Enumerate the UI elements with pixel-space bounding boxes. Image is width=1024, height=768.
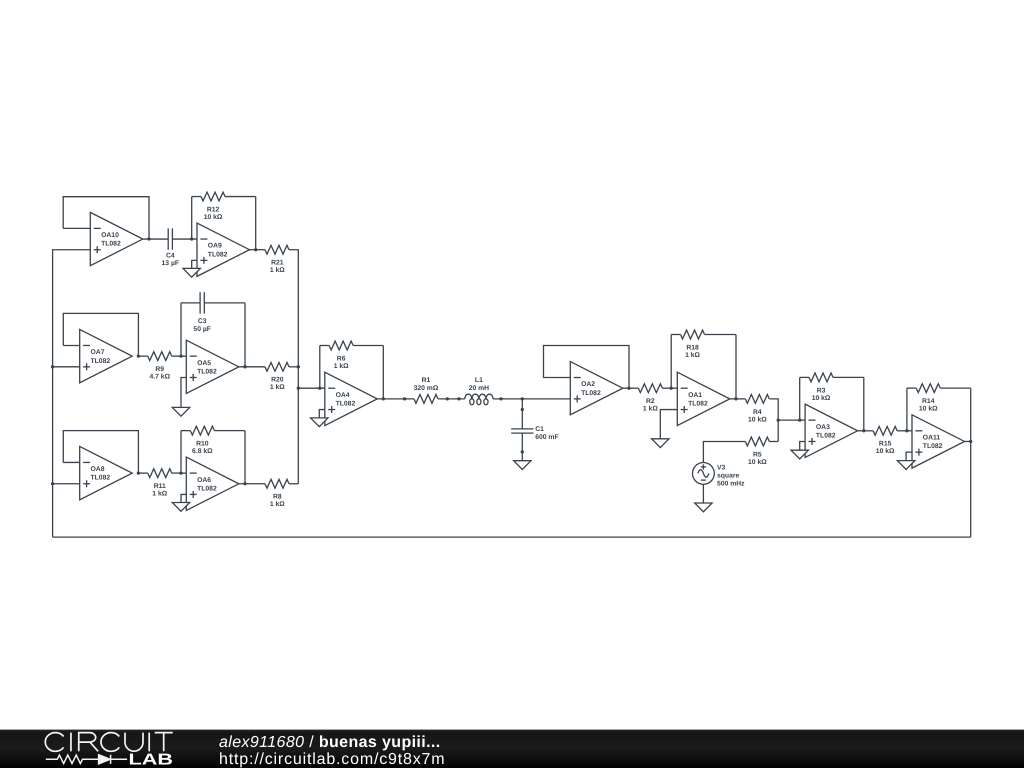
CircuitLab logo wordmark LAB bbox=[129, 752, 174, 768]
svg-text:L1: L1 bbox=[475, 377, 483, 384]
svg-text:TL082: TL082 bbox=[688, 400, 708, 407]
wire - R4 right to rail down to R5 bbox=[769, 399, 778, 442]
svg-text:LAB: LAB bbox=[129, 752, 174, 768]
svg-text:TL082: TL082 bbox=[197, 368, 217, 375]
op-amp OA11 (TL082) bbox=[912, 415, 965, 468]
wire - left rail from OA10 + input down to bottom bus bbox=[53, 250, 91, 537]
svg-text:TL082: TL082 bbox=[581, 390, 601, 397]
op-amp OA3 (TL082) bbox=[805, 404, 858, 457]
op-amp OA7 (TL082) bbox=[80, 329, 133, 382]
resistor R12 (10 k&#937;) bbox=[192, 192, 256, 221]
wire - R18 feedback loop right leg bbox=[735, 335, 737, 399]
wire - bottom feedback bus bbox=[53, 536, 971, 538]
wire - R12 feedback loop left leg bbox=[191, 197, 193, 240]
svg-text:C1: C1 bbox=[535, 426, 544, 433]
svg-text:10 kΩ: 10 kΩ bbox=[748, 459, 767, 466]
wire - R3 feedback loop right leg bbox=[863, 377, 865, 430]
resistor R6 (1 k&#937;) bbox=[320, 341, 384, 370]
ground - OA11 + input bbox=[897, 452, 914, 469]
resistor R3 (10 k&#937;) bbox=[800, 373, 864, 402]
wire - OA9 output to R21 bbox=[250, 249, 266, 251]
svg-text:R5: R5 bbox=[753, 451, 762, 458]
wire - OA10 feedback loop (output to - input) bbox=[63, 197, 149, 239]
svg-text:R18: R18 bbox=[686, 344, 699, 351]
svg-text:R3: R3 bbox=[817, 387, 826, 394]
op-amp OA5 (TL082) bbox=[186, 340, 239, 393]
ground - OA5 + input bbox=[172, 377, 189, 416]
svg-text:R2: R2 bbox=[646, 398, 655, 405]
wire - OA3 output to R15 bbox=[858, 430, 874, 432]
svg-text:10 kΩ: 10 kΩ bbox=[748, 416, 767, 423]
wire - C3 feedback loop right leg bbox=[244, 303, 246, 367]
wire - right rail to OA4 - input bbox=[298, 387, 325, 389]
svg-text:1 kΩ: 1 kΩ bbox=[685, 352, 700, 359]
resistor R21 (1 k&#937;) bbox=[265, 245, 289, 274]
wire - C3 feedback loop left leg bbox=[180, 303, 182, 356]
node - junction left rail / OA7 + input bbox=[51, 365, 54, 368]
node - R3 loop / OA3 - input junction bbox=[798, 418, 801, 421]
node - OA3 output junction bbox=[862, 429, 865, 432]
svg-text:R4: R4 bbox=[753, 409, 762, 416]
wire - OA10 output to C4 bbox=[143, 238, 168, 240]
wire - OA8 feedback loop (output to - input) bbox=[63, 431, 138, 473]
svg-text:1 kΩ: 1 kΩ bbox=[270, 267, 285, 274]
ground - C1 bbox=[514, 461, 531, 470]
CircuitLab logo resistor-diode glyph bbox=[46, 755, 127, 764]
wire - right rail from OA11 output down to bottom bus bbox=[970, 441, 972, 537]
svg-text:OA5: OA5 bbox=[197, 360, 211, 367]
resistor R5 (10 k&#937;) bbox=[745, 437, 769, 466]
svg-text:TL082: TL082 bbox=[197, 485, 217, 492]
resistor R10 (6.8 k&#937;) bbox=[181, 426, 245, 455]
ground - OA1 + input bbox=[652, 410, 678, 448]
svg-text:R9: R9 bbox=[155, 366, 164, 373]
footer title text bbox=[219, 734, 445, 768]
svg-text:OA8: OA8 bbox=[91, 466, 105, 473]
svg-text:R15: R15 bbox=[879, 441, 892, 448]
voltage source V3 (square 500 mHz) bbox=[693, 463, 746, 488]
wire - left rail to OA8 + input bbox=[53, 483, 80, 485]
svg-text:OA3: OA3 bbox=[816, 424, 830, 431]
resistor R14 (10 k&#937;) bbox=[907, 384, 971, 413]
svg-text:V3: V3 bbox=[717, 465, 726, 472]
resistor R11 (1 k&#937;) bbox=[138, 469, 186, 498]
svg-text:OA6: OA6 bbox=[197, 477, 211, 484]
node - R14 loop / OA11 - input junction bbox=[905, 429, 908, 432]
wire - OA1 output to R4 bbox=[730, 398, 746, 400]
node - R4/R5 output node bbox=[777, 418, 780, 421]
wire - V3 to ground bbox=[702, 484, 704, 503]
node - right rail / R20 junction bbox=[297, 365, 300, 368]
svg-text:R1: R1 bbox=[422, 377, 431, 384]
node - C1 upper pin bbox=[521, 408, 524, 411]
svg-text:TL082: TL082 bbox=[91, 358, 111, 365]
svg-text:TL082: TL082 bbox=[816, 432, 836, 439]
op-amp OA8 (TL082) bbox=[80, 446, 133, 499]
wire - R20 to right rail bbox=[289, 366, 298, 368]
op-amp OA6 (TL082) bbox=[186, 457, 239, 510]
svg-text:10 kΩ: 10 kΩ bbox=[919, 406, 938, 413]
node - OA6 output junction bbox=[243, 482, 246, 485]
wire - left rail to OA7 + input bbox=[53, 366, 80, 368]
inductor L1 (20 mH) bbox=[465, 377, 493, 405]
svg-text:1 kΩ: 1 kΩ bbox=[152, 491, 167, 498]
wire - OA6 output to R8 bbox=[239, 483, 265, 485]
svg-text:R6: R6 bbox=[337, 355, 346, 362]
svg-text:TL082: TL082 bbox=[923, 443, 943, 450]
svg-text:http://circuitlab.com/c9t8x7m: http://circuitlab.com/c9t8x7m bbox=[219, 751, 445, 768]
svg-text:OA7: OA7 bbox=[91, 349, 105, 356]
wire - R18 feedback loop left leg bbox=[670, 335, 672, 389]
svg-text:10 kΩ: 10 kΩ bbox=[204, 214, 223, 221]
wire - OA11 output stub bbox=[965, 440, 971, 442]
svg-text:alex911680 / buenas yupiii...: alex911680 / buenas yupiii... bbox=[219, 734, 440, 751]
wire - R6 feedback loop right leg bbox=[382, 346, 384, 399]
ground - OA4 + input bbox=[311, 410, 328, 427]
svg-text:1 kΩ: 1 kΩ bbox=[643, 406, 658, 413]
node - C1 ground pin bbox=[521, 450, 524, 453]
node - OA2 output junction bbox=[627, 387, 630, 390]
resistor R18 (1 k&#937;) bbox=[671, 330, 736, 359]
resistor R8 (1 k&#937;) bbox=[265, 479, 289, 508]
svg-text:OA9: OA9 bbox=[208, 243, 222, 250]
wire - R10 feedback loop right leg bbox=[244, 431, 246, 484]
wire - R15 to OA11 - input bbox=[897, 430, 912, 432]
svg-text:TL082: TL082 bbox=[91, 475, 111, 482]
node - OA9 output junction bbox=[254, 248, 257, 251]
wire - R1 to L1 bbox=[438, 398, 465, 400]
svg-text:1 kΩ: 1 kΩ bbox=[270, 384, 285, 391]
wire - R6 feedback loop left leg bbox=[319, 346, 321, 389]
node - OA1 output junction bbox=[734, 397, 737, 400]
node - OA11 output junction bbox=[969, 440, 972, 443]
resistor R4 (10 k&#937;) bbox=[745, 394, 769, 423]
svg-text:600 mF: 600 mF bbox=[535, 434, 558, 441]
svg-text:R20: R20 bbox=[271, 377, 284, 384]
op-amp OA4 (TL082) bbox=[325, 372, 378, 425]
node - OA5 - input junction bbox=[179, 355, 182, 358]
ground - V3 bbox=[695, 503, 712, 512]
svg-text:1 kΩ: 1 kΩ bbox=[334, 363, 349, 370]
ground - OA6 + input bbox=[172, 494, 189, 511]
wire - OA2 feedback loop (output to - input) bbox=[544, 346, 630, 389]
svg-text:OA11: OA11 bbox=[923, 434, 941, 441]
svg-text:C3: C3 bbox=[198, 318, 207, 325]
node - L1 right pin bbox=[499, 397, 502, 400]
node - OA9 - input junction bbox=[190, 237, 193, 240]
node - OA8 output junction bbox=[137, 471, 140, 474]
svg-text:TL082: TL082 bbox=[336, 400, 356, 407]
svg-text:square: square bbox=[717, 473, 740, 480]
svg-text:50 µF: 50 µF bbox=[193, 326, 211, 333]
op-amp OA1 (TL082) bbox=[677, 372, 730, 425]
svg-text:10 kΩ: 10 kΩ bbox=[876, 448, 895, 455]
node - OA4 output junction bbox=[382, 397, 385, 400]
wire - R14 feedback loop left leg bbox=[906, 388, 908, 431]
svg-text:C4: C4 bbox=[166, 252, 175, 259]
node - R18 loop / OA1 - input junction bbox=[670, 387, 673, 390]
svg-text:1 kΩ: 1 kΩ bbox=[270, 501, 285, 508]
svg-text:OA1: OA1 bbox=[688, 392, 702, 399]
svg-text:TL082: TL082 bbox=[101, 241, 121, 248]
resistor R2 (1 k&#937;) bbox=[638, 384, 662, 413]
op-amp OA2 (TL082) bbox=[570, 362, 623, 415]
wire - R14 feedback loop right leg bbox=[970, 388, 972, 441]
resistor R1 (320 m&#937;) bbox=[414, 377, 439, 403]
node - right rail / OA4 branch junction bbox=[297, 387, 300, 390]
CircuitLab logo wordmark CIRCUIT (drawn glyphs) bbox=[45, 733, 172, 752]
svg-text:6.8 kΩ: 6.8 kΩ bbox=[192, 448, 213, 455]
node - R1 right pin bbox=[446, 397, 449, 400]
wire - OA5 output to R20 bbox=[239, 366, 265, 368]
svg-text:13 µF: 13 µF bbox=[162, 260, 180, 267]
wire - OA7 feedback loop (output to - input) bbox=[63, 313, 138, 356]
op-amp OA10 (TL082) bbox=[90, 212, 143, 265]
svg-text:320 mΩ: 320 mΩ bbox=[414, 385, 439, 392]
svg-text:10 kΩ: 10 kΩ bbox=[812, 395, 831, 402]
resistor R9 (4.7 k&#937;) bbox=[138, 352, 186, 381]
svg-text:R21: R21 bbox=[271, 260, 284, 267]
ground - OA3 + input bbox=[791, 441, 808, 459]
svg-text:OA10: OA10 bbox=[101, 232, 119, 239]
wire - R10 feedback loop left leg bbox=[180, 431, 182, 473]
wire - C1 to ground bbox=[521, 433, 523, 461]
op-amp OA9 (TL082) bbox=[197, 223, 250, 276]
wire - OA2 output to R2 bbox=[623, 387, 639, 389]
node - R6 loop / OA4 - input junction bbox=[318, 387, 321, 390]
resistor R15 (10 k&#937;) bbox=[873, 426, 897, 455]
wire - R2 to OA1 - input bbox=[662, 387, 677, 389]
svg-text:R10: R10 bbox=[196, 441, 209, 448]
node - junction left rail / OA8 + input bbox=[51, 482, 54, 485]
wire - R12 feedback loop right leg bbox=[255, 197, 257, 250]
capacitor C3 (50 &#181;F) bbox=[181, 292, 245, 333]
node - L1 left pin bbox=[457, 397, 460, 400]
wire - L1 to OA2 + input bbox=[493, 398, 570, 400]
node - R1 left pin bbox=[403, 397, 406, 400]
node - OA10 output junction bbox=[147, 237, 150, 240]
svg-text:R12: R12 bbox=[207, 206, 220, 213]
capacitor C1 (600 mF) bbox=[511, 426, 558, 441]
svg-text:20 mH: 20 mH bbox=[469, 385, 489, 392]
node - OA5 output junction bbox=[243, 365, 246, 368]
node - OA6 - input junction bbox=[179, 471, 182, 474]
wire - C4 to OA9 - input bbox=[172, 238, 197, 240]
wire - R3 feedback loop left leg bbox=[799, 377, 801, 420]
svg-text:R8: R8 bbox=[273, 494, 282, 501]
wire - R21 to right rail, down to R8 bbox=[289, 250, 298, 484]
capacitor C4 bbox=[162, 228, 180, 267]
svg-text:500 mHz: 500 mHz bbox=[717, 481, 745, 488]
svg-text:TL082: TL082 bbox=[208, 251, 228, 258]
svg-text:OA4: OA4 bbox=[336, 392, 350, 399]
wire - V3 to R5 bbox=[703, 442, 745, 463]
svg-text:OA2: OA2 bbox=[581, 381, 595, 388]
svg-text:R11: R11 bbox=[154, 483, 166, 490]
node - C1 top junction bbox=[521, 397, 524, 400]
wire - junction down to C1 bbox=[521, 399, 523, 429]
wire - R5 right pin to rail bbox=[769, 441, 778, 443]
svg-text:R14: R14 bbox=[922, 398, 935, 405]
wire - OA4 output to R1 bbox=[377, 398, 414, 400]
resistor R20 (1 k&#937;) bbox=[265, 362, 289, 391]
svg-text:4.7 kΩ: 4.7 kΩ bbox=[149, 374, 170, 381]
wire - R4/R5 node to OA3 - input bbox=[778, 419, 805, 421]
wire - R8 to right rail bbox=[289, 483, 298, 485]
ground - OA9 + input bbox=[183, 260, 200, 277]
node - OA7 output junction bbox=[137, 355, 140, 358]
